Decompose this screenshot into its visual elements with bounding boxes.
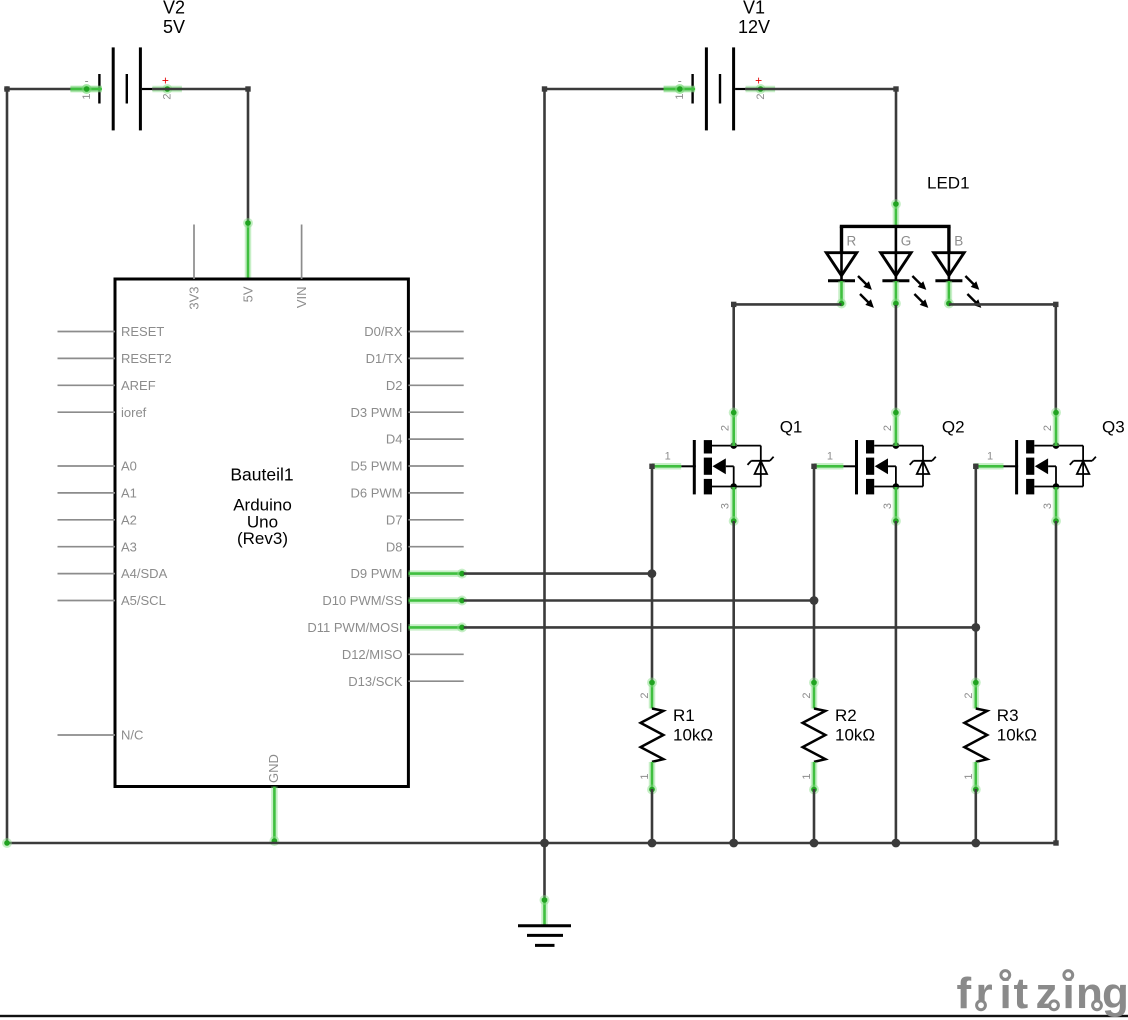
wire ground pin leg green xyxy=(540,895,550,925)
wire left rail down xyxy=(6,89,9,843)
Arduino top pin stubs and labels xyxy=(187,225,310,310)
wire Q1 gate down to D9/R1 xyxy=(651,466,654,682)
battery V1 12V xyxy=(664,0,776,130)
Arduino GND pin leg green xyxy=(269,787,279,847)
svg-text:2: 2 xyxy=(963,692,975,698)
svg-text:A2: A2 xyxy=(121,512,137,527)
svg-text:B: B xyxy=(954,234,963,249)
node Q2 gate bend xyxy=(811,464,816,469)
svg-text:1: 1 xyxy=(639,773,651,779)
node V1 pos corner xyxy=(893,86,898,91)
svg-text:VIN: VIN xyxy=(294,287,309,309)
svg-text:Q3: Q3 xyxy=(1102,418,1125,437)
svg-text:D11 PWM/MOSI: D11 PWM/MOSI xyxy=(307,620,402,635)
svg-text:10kΩ: 10kΩ xyxy=(997,726,1037,745)
svg-text:RESET2: RESET2 xyxy=(121,351,172,366)
resistor R2 10k xyxy=(801,678,875,795)
svg-text:10kΩ: 10kΩ xyxy=(835,726,875,745)
svg-text:G: G xyxy=(901,234,912,249)
svg-text:Bauteil1: Bauteil1 xyxy=(230,465,293,485)
svg-text:D1/TX: D1/TX xyxy=(366,351,403,366)
svg-text:2: 2 xyxy=(162,93,174,99)
wire LED B cathode to Q3 drain xyxy=(949,304,1056,413)
svg-text:D0/RX: D0/RX xyxy=(364,324,403,339)
svg-text:1: 1 xyxy=(674,93,686,99)
svg-text:R1: R1 xyxy=(673,706,695,725)
wire D10 pin leg green xyxy=(408,596,467,606)
ground symbol xyxy=(518,926,571,946)
svg-text:R3: R3 xyxy=(997,706,1019,725)
svg-text:3V3: 3V3 xyxy=(187,287,202,310)
label LED1 xyxy=(927,173,970,192)
wire LED R cathode to Q1 drain xyxy=(734,304,842,413)
wire ground tap down xyxy=(543,843,546,899)
svg-text:D3 PWM: D3 PWM xyxy=(351,405,403,420)
wire Q1 source to ground rail xyxy=(732,521,735,843)
svg-text:D13/SCK: D13/SCK xyxy=(348,674,403,689)
svg-text:3: 3 xyxy=(720,503,732,509)
svg-text:A5/SCL: A5/SCL xyxy=(121,593,166,608)
wire V2 positive to corner xyxy=(152,88,248,91)
svg-text:D9 PWM: D9 PWM xyxy=(351,566,403,581)
svg-text:2: 2 xyxy=(801,692,813,698)
svg-text:RESET: RESET xyxy=(121,324,164,339)
node top-left corner xyxy=(4,86,10,92)
svg-text:1: 1 xyxy=(801,773,813,779)
transistor Q1 xyxy=(652,408,802,527)
node R corner xyxy=(731,302,736,307)
svg-text:t: t xyxy=(1014,969,1029,1018)
svg-text:+: + xyxy=(755,74,762,88)
svg-text:R: R xyxy=(847,234,857,249)
svg-text:r: r xyxy=(976,969,993,1018)
svg-text:R2: R2 xyxy=(835,706,857,725)
svg-text:10kΩ: 10kΩ xyxy=(673,726,713,745)
node Q1 source ground junction xyxy=(729,839,738,848)
svg-text:ioref: ioref xyxy=(121,405,147,420)
wire D9 pin leg green xyxy=(408,569,467,579)
svg-text:AREF: AREF xyxy=(121,378,156,393)
LED1 red diode R xyxy=(826,226,874,308)
svg-text:D6 PWM: D6 PWM xyxy=(351,486,403,501)
transistor Q2 xyxy=(814,408,964,527)
svg-text:1: 1 xyxy=(665,451,671,463)
node V2 corner xyxy=(245,86,250,91)
svg-text:1: 1 xyxy=(963,773,975,779)
wire 5V pin leg green xyxy=(243,218,253,280)
node D11 junction xyxy=(971,623,980,632)
LED1 blue diode B xyxy=(934,226,982,308)
node Q1 gate bend xyxy=(649,464,654,469)
svg-text:1: 1 xyxy=(987,451,993,463)
resistor R1 10k xyxy=(639,678,713,795)
fritzing logo xyxy=(957,969,1128,1018)
svg-text:GND: GND xyxy=(266,754,281,783)
svg-text:+: + xyxy=(162,74,169,88)
svg-text:3: 3 xyxy=(882,503,894,509)
transistor Q3 xyxy=(974,408,1124,527)
svg-text:D12/MISO: D12/MISO xyxy=(342,647,403,662)
svg-text:f: f xyxy=(957,969,972,1018)
svg-text:2: 2 xyxy=(720,425,732,431)
svg-text:N/C: N/C xyxy=(121,728,143,743)
svg-text:V2: V2 xyxy=(163,0,185,18)
svg-text:D8: D8 xyxy=(386,539,403,554)
Arduino GND pin label xyxy=(266,754,281,783)
svg-text:A0: A0 xyxy=(121,459,137,474)
wire D11 to Q3 gate net xyxy=(464,626,976,629)
wire V2 corner down to 5V pin xyxy=(247,89,250,223)
wire Q3 gate down to D11/R3 xyxy=(974,466,977,682)
node ground rail right corner xyxy=(1053,840,1058,845)
svg-text:12V: 12V xyxy=(738,17,770,37)
svg-text:D2: D2 xyxy=(386,378,403,393)
LED1 green diode G xyxy=(881,226,929,308)
svg-text:A3: A3 xyxy=(121,539,137,554)
wire R3 bottom to ground rail xyxy=(974,789,977,843)
wire ground rail xyxy=(7,842,1056,845)
node R1 ground junction xyxy=(648,839,657,848)
svg-text:V1: V1 xyxy=(743,0,765,18)
svg-text:D4: D4 xyxy=(386,432,403,447)
wire LED G cathode to Q2 drain xyxy=(895,305,898,413)
label Arduino Uno Rev3 xyxy=(233,496,292,548)
node Q3 gate bend xyxy=(973,464,978,469)
svg-text:(Rev3): (Rev3) xyxy=(237,529,288,548)
svg-text:2: 2 xyxy=(1042,425,1054,431)
wire LED1 anode leg green xyxy=(891,199,901,227)
svg-text:Q1: Q1 xyxy=(780,418,803,437)
svg-text:2: 2 xyxy=(882,425,894,431)
svg-text:D5 PWM: D5 PWM xyxy=(351,459,403,474)
svg-text:2: 2 xyxy=(755,93,767,99)
wire V2 negative to left rail xyxy=(7,84,102,94)
svg-text:2: 2 xyxy=(639,692,651,698)
svg-text:D10 PWM/SS: D10 PWM/SS xyxy=(322,593,403,608)
node ground rail left end xyxy=(2,838,12,848)
label Bauteil1 xyxy=(230,465,293,485)
svg-text:A4/SDA: A4/SDA xyxy=(121,566,168,581)
svg-text:Q2: Q2 xyxy=(942,418,965,437)
svg-text:5V: 5V xyxy=(163,17,185,37)
node D10 junction xyxy=(810,596,819,605)
wire R1 bottom to ground rail xyxy=(651,789,654,843)
wire Q3 source to ground rail xyxy=(1055,521,1058,843)
svg-text:1: 1 xyxy=(81,93,93,99)
svg-text:LED1: LED1 xyxy=(927,173,970,192)
wire R2 bottom to ground rail xyxy=(813,789,816,843)
battery V2 5V xyxy=(70,0,185,130)
wire V1 negative rail down xyxy=(543,89,546,843)
wire D11 pin leg green xyxy=(408,622,467,632)
wire D9 to Q1 gate net xyxy=(464,572,652,575)
Arduino left pin labels xyxy=(121,324,172,742)
svg-text:A1: A1 xyxy=(121,486,137,501)
LED1 bus bar xyxy=(840,226,951,253)
wire Q2 source to ground rail xyxy=(895,521,898,843)
svg-text:5V: 5V xyxy=(240,286,255,302)
wire V1 negative from corner xyxy=(545,84,696,94)
wire D10 to Q2 gate net xyxy=(464,599,814,602)
Arduino right pin stubs xyxy=(408,332,463,682)
node R2 ground junction xyxy=(810,839,819,848)
node V1 neg corner xyxy=(542,86,547,91)
Arduino left pin stubs xyxy=(58,332,116,736)
node R3 ground junction xyxy=(971,839,980,848)
Arduino right pin labels xyxy=(307,324,402,689)
node B corner xyxy=(1053,302,1058,307)
IC Bauteil1 Arduino Uno box xyxy=(115,279,408,787)
node GND tap junction xyxy=(540,839,549,848)
resistor R3 10k xyxy=(963,678,1037,795)
svg-text:1: 1 xyxy=(827,451,833,463)
wire V1 corner down to LED1 xyxy=(895,89,898,204)
node Q2 source ground junction xyxy=(892,839,901,848)
node D9 junction xyxy=(648,569,657,578)
svg-text:g: g xyxy=(1102,969,1128,1018)
wire Q2 gate down to D10/R2 xyxy=(813,466,816,682)
svg-text:3: 3 xyxy=(1042,503,1054,509)
wire V1 positive to corner xyxy=(745,88,896,91)
svg-text:D7: D7 xyxy=(386,512,403,527)
